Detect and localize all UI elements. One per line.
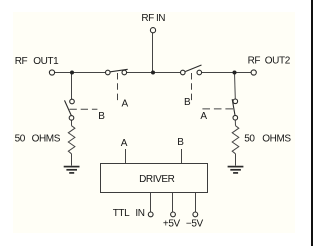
wire -5V pin: [195, 193, 197, 212]
resistor R2: [232, 126, 239, 154]
svg-text:B: B: [184, 97, 191, 108]
wire driver input A: [125, 149, 127, 164]
terminal -5V: [193, 212, 198, 217]
wire RF IN stem: [152, 33, 154, 73]
svg-text:TTL: TTL: [113, 208, 130, 219]
control line B dashed: [191, 73, 193, 101]
wire right shunt drop: [234, 73, 237, 100]
svg-text:DRIVER: DRIVER: [139, 174, 175, 185]
wire resistor R1 to ground: [71, 154, 73, 166]
terminal RF OUT1: [49, 70, 54, 75]
svg-text:OUT2: OUT2: [265, 56, 291, 67]
terminal RF OUT2: [251, 70, 256, 75]
svg-text:A: A: [122, 99, 129, 110]
svg-text:RF: RF: [248, 56, 261, 67]
svg-text:A: A: [200, 111, 207, 122]
driver U1: [101, 164, 208, 193]
ground right: [228, 167, 244, 173]
wire right switch to resistor: [234, 120, 236, 126]
control line A dashed: [117, 73, 119, 101]
svg-text:+5V: +5V: [163, 219, 181, 230]
svg-text:OUT1: OUT1: [33, 56, 59, 67]
wire bus RF OUT1 to S1: [55, 72, 106, 74]
junction at RF OUT1 branch: [70, 71, 74, 75]
junction at RF OUT2 branch: [233, 71, 237, 75]
paper: [13, 12, 295, 233]
svg-text:50: 50: [244, 134, 255, 145]
wire bus S2 to RF OUT2: [202, 72, 251, 74]
svg-text:B: B: [177, 137, 184, 148]
wire driver input B: [181, 149, 183, 164]
terminal TTL IN: [148, 212, 153, 217]
junction at RF IN: [151, 71, 155, 75]
switch S2 series control B: [181, 65, 202, 75]
svg-text:OHMS: OHMS: [32, 134, 61, 145]
terminal RF IN: [150, 28, 155, 33]
svg-text:50: 50: [15, 134, 26, 145]
switch S3 shunt control B: [65, 99, 75, 120]
wire resistor R2 to ground: [235, 154, 237, 166]
svg-text:−5V: −5V: [186, 219, 204, 230]
svg-text:IN: IN: [135, 208, 144, 219]
svg-text:RF IN: RF IN: [141, 13, 165, 24]
wire bus S1 to S2: [127, 72, 181, 74]
switch S1 series control A: [106, 69, 128, 74]
wire left shunt drop: [71, 73, 73, 100]
wire +5V pin: [172, 193, 174, 212]
ground left: [64, 167, 80, 173]
svg-text:A: A: [121, 138, 128, 149]
resistor R1: [68, 126, 75, 154]
terminal +5V: [171, 212, 176, 217]
wire left switch to resistor: [71, 120, 73, 125]
svg-text:B: B: [98, 111, 105, 122]
svg-text:RF: RF: [15, 56, 28, 67]
switch S4 shunt control A: [232, 99, 237, 120]
svg-text:OHMS: OHMS: [262, 134, 291, 145]
control line B dashed (left shunt): [70, 108, 98, 110]
wire TTL IN pin: [150, 193, 152, 212]
control line A dashed (right shunt): [202, 108, 234, 110]
